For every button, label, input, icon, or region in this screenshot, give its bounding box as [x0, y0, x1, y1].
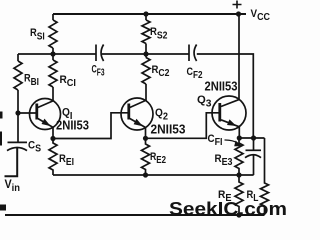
transistor Q3 emitter stroke	[221, 120, 239, 127]
wire Vcc drop to Q3 collector	[238, 14, 240, 100]
capacitor CF2 flat plate	[188, 45, 190, 62]
wire CF1 top stub	[253, 138, 255, 150]
transistor Q3 emitter arrowhead	[227, 119, 236, 126]
svg-text:2NII53: 2NII53	[56, 118, 89, 133]
wire feedback from CF2 to output node	[197, 54, 254, 138]
svg-text:2NII53: 2NII53	[151, 122, 186, 137]
resistor RB1	[14, 61, 22, 90]
capacitor CF3 flat plate	[95, 45, 97, 62]
svg-text:RBI: RBI	[24, 73, 39, 89]
capacitor CF1 curved plate	[245, 155, 261, 158]
node Q1 emitter junction dot	[50, 136, 55, 141]
wire Vin input lead	[5, 148, 18, 177]
node Q1 base junction dot	[15, 110, 20, 115]
wire RS1 bottom lead	[52, 48, 54, 54]
node RE2 bottom junction dot	[143, 172, 148, 177]
resistor RE	[235, 175, 243, 215]
capacitor CF1 flat plate	[246, 149, 262, 151]
transistor Q3 base bar	[218, 103, 221, 122]
resistor RC1	[49, 60, 57, 87]
transistor Q1 collector stroke	[38, 101, 53, 108]
wire node-B2 bus	[102, 53, 189, 55]
wire CF1 bottom stub	[253, 155, 255, 175]
label CF1 pointer arrow	[225, 140, 239, 143]
wire Q2 emitter drop	[145, 128, 147, 139]
capacitor CF3 curved plate	[101, 45, 104, 62]
svg-text:RSI: RSI	[30, 27, 45, 43]
svg-text:Q3: Q3	[197, 94, 212, 110]
scan artifact mark 1	[0, 112, 3, 119]
scan artifact mark 2	[0, 132, 2, 146]
transistor Q2 emitter arrowhead	[134, 119, 143, 127]
transistor Q1 base bar	[35, 104, 38, 120]
svg-text:RE3: RE3	[215, 153, 233, 168]
svg-text:CFI: CFI	[208, 133, 223, 148]
transistor Q2 base bar	[127, 104, 130, 120]
svg-text:2NII53: 2NII53	[205, 79, 238, 94]
wire Q2 emitter to Q3 base	[146, 113, 219, 139]
node feedback junction dot	[251, 135, 256, 140]
Vcc plus sign	[233, 1, 242, 9]
svg-text:RE2: RE2	[150, 151, 166, 166]
wire Q1 emitter to Q2 base	[53, 113, 128, 139]
wire output rail	[239, 137, 264, 139]
node Vcc junction dot	[236, 11, 241, 16]
resistor RS1	[49, 20, 57, 48]
transistor Q3 body circle	[212, 96, 246, 130]
wire RS2 top lead	[145, 14, 147, 20]
wire CS top stub	[17, 113, 19, 142]
transistor Q2 collector stroke	[130, 101, 146, 108]
transistor Q2 emitter stroke	[130, 119, 146, 128]
svg-text:RCI: RCI	[60, 74, 77, 89]
svg-text:Vin: Vin	[5, 179, 21, 194]
wire Vcc top rail	[53, 13, 246, 15]
svg-text:RS2: RS2	[150, 26, 168, 42]
svg-text:CS: CS	[28, 140, 41, 155]
scan artifact mark 3	[0, 205, 6, 211]
wire node-B1 bus	[18, 53, 96, 55]
capacitor CF2 curved plate	[194, 45, 197, 62]
node B1 junction dot	[50, 51, 55, 56]
wire common emitter rail	[53, 174, 254, 176]
wire RB1 bottom lead	[17, 90, 19, 113]
wire Q1 base lead	[18, 112, 36, 114]
wire Q1 emitter drop	[52, 127, 54, 138]
resistor RC2	[142, 58, 150, 85]
wire RC1 bottom lead (Q1 collector)	[52, 87, 54, 101]
svg-text:Q2: Q2	[155, 107, 168, 123]
transistor Q1 emitter stroke	[38, 119, 53, 128]
transistor Q1 body circle	[30, 99, 61, 130]
wire RS2 bottom lead	[145, 44, 147, 55]
node RE bottom-rail junction dot	[236, 172, 241, 177]
resistor RE1	[49, 139, 57, 176]
wire Q3 emitter drop	[238, 127, 240, 138]
svg-text:RC2: RC2	[152, 64, 170, 79]
svg-text:REI: REI	[59, 153, 74, 168]
svg-text:VCC: VCC	[251, 8, 271, 23]
capacitor CS flat plate	[8, 141, 28, 143]
transistor Q1 emitter arrowhead	[42, 119, 51, 127]
wire RB1 top lead	[17, 54, 19, 61]
node Q2 emitter junction dot	[143, 136, 148, 141]
svg-text:CF2: CF2	[187, 66, 203, 81]
resistor RS2	[142, 20, 150, 44]
resistor RL	[261, 138, 269, 215]
node RS2 top junction dot	[143, 11, 148, 16]
svg-text:CF3: CF3	[92, 64, 105, 79]
capacitor CS curved plate	[7, 148, 27, 151]
transistor Q3 collector stroke	[221, 99, 239, 106]
wire bottom ground rail	[5, 214, 265, 216]
wire RC2 top lead	[145, 54, 147, 58]
node B2 junction dot	[143, 51, 148, 56]
node Q3 emitter junction dot	[237, 135, 242, 140]
resistor RE3	[235, 138, 243, 175]
node RE bottom junction dot	[236, 212, 241, 217]
transistor Q2 body circle	[121, 98, 153, 130]
wire RS1 top lead	[52, 14, 54, 20]
resistor RE2	[142, 138, 150, 175]
wire RC2 bottom lead (Q2 collector)	[145, 84, 147, 101]
wire RC1 top lead	[52, 54, 54, 60]
